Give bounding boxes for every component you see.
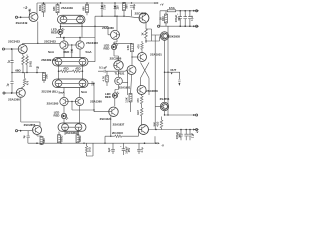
svg-text:2SC3423: 2SC3423 — [8, 40, 20, 44]
svg-text:7.5V: 7.5V — [102, 4, 106, 10]
svg-text:47Ω: 47Ω — [75, 67, 81, 71]
svg-text:2SC3381: 2SC3381 — [65, 131, 77, 135]
svg-text:100Ω: 100Ω — [29, 61, 33, 67]
svg-text:1K: 1K — [141, 32, 145, 35]
svg-text:2SC4793: 2SC4793 — [135, 11, 147, 15]
svg-text:2SC3423: 2SC3423 — [100, 117, 112, 121]
svg-text:RED: RED — [54, 114, 60, 118]
svg-text:R10: R10 — [161, 16, 165, 21]
svg-text:680: 680 — [42, 138, 46, 143]
svg-text:1μ: 1μ — [6, 60, 10, 63]
svg-text:100μ: 100μ — [132, 3, 136, 9]
svg-text:+V: +V — [160, 2, 164, 6]
svg-text:2SA1360: 2SA1360 — [90, 100, 102, 104]
svg-text:2SJ554: 2SJ554 — [160, 97, 170, 101]
svg-text:5mA: 5mA — [48, 50, 54, 54]
svg-text:470: 470 — [26, 80, 30, 85]
svg-text:RED: RED — [104, 47, 110, 51]
svg-text:1.5K: 1.5K — [124, 97, 128, 103]
svg-text:2SA1360: 2SA1360 — [47, 101, 59, 105]
svg-text:33K: 33K — [45, 74, 49, 79]
svg-text:1 μF: 1 μF — [190, 132, 194, 138]
svg-text:2SK389 (BL): 2SK389 (BL) — [41, 58, 58, 62]
svg-text:2SC3423: 2SC3423 — [86, 41, 98, 45]
svg-text:5mA: 5mA — [81, 90, 87, 94]
svg-text:2SA1837: 2SA1837 — [113, 122, 125, 126]
svg-text:1μ: 1μ — [5, 83, 9, 86]
svg-text:47Ω: 47Ω — [63, 67, 69, 71]
svg-text:2SC2856: 2SC2856 — [24, 123, 36, 127]
svg-text:10Ω: 10Ω — [87, 147, 91, 152]
svg-text:RED: RED — [51, 31, 57, 35]
svg-text:680: 680 — [81, 6, 85, 11]
svg-text:680Ω: 680Ω — [60, 136, 64, 142]
svg-text:OUT: OUT — [170, 68, 176, 72]
svg-text:2SC3423: 2SC3423 — [44, 40, 56, 44]
svg-text:5mA: 5mA — [58, 91, 64, 95]
svg-text:560: 560 — [124, 4, 128, 9]
svg-text:0.1 μF: 0.1 μF — [99, 66, 107, 70]
svg-text:TLP521: TLP521 — [115, 72, 125, 76]
svg-text:2SJ109 (BL): 2SJ109 (BL) — [41, 89, 57, 93]
svg-text:-V: -V — [161, 143, 164, 147]
svg-text:IN: IN — [36, 65, 39, 69]
svg-text:1.5K: 1.5K — [126, 45, 130, 51]
svg-text:-V: -V — [196, 130, 199, 134]
svg-text:2SA1349: 2SA1349 — [61, 6, 73, 10]
svg-text:2SK2955: 2SK2955 — [168, 34, 180, 38]
svg-text:4.7μ: 4.7μ — [140, 147, 144, 153]
svg-text:36V: 36V — [177, 133, 181, 138]
svg-text:2SA1931: 2SA1931 — [119, 85, 131, 89]
svg-text:2N 240U: 2N 240U — [112, 131, 123, 135]
svg-text:2SA1360: 2SA1360 — [8, 98, 20, 102]
svg-text:470: 470 — [136, 44, 140, 49]
svg-text:5mA: 5mA — [85, 50, 91, 54]
svg-text:1μF: 1μF — [107, 147, 111, 152]
svg-text:2SA1349: 2SA1349 — [16, 21, 28, 25]
svg-text:2SA1360: 2SA1360 — [102, 26, 114, 30]
svg-text:36V: 36V — [177, 16, 181, 21]
svg-text:25V: 25V — [127, 147, 131, 152]
svg-text:680: 680 — [52, 6, 56, 11]
svg-text:4.7K: 4.7K — [101, 76, 105, 82]
svg-text:680Ω: 680Ω — [78, 136, 82, 142]
svg-text:RED: RED — [105, 95, 111, 99]
svg-text:4Ω3: 4Ω3 — [156, 121, 160, 126]
svg-text:4Ω7: 4Ω7 — [136, 109, 140, 114]
svg-text:68Ω: 68Ω — [15, 68, 21, 72]
svg-text:470: 470 — [136, 98, 140, 103]
svg-text:1μ: 1μ — [22, 135, 26, 138]
svg-text:680Ω: 680Ω — [38, 5, 42, 11]
svg-text:12V: 12V — [91, 81, 95, 86]
svg-text:1 μF: 1 μF — [190, 15, 194, 21]
svg-text:2SC2856: 2SC2856 — [146, 89, 158, 93]
svg-text:0.5A: 0.5A — [169, 6, 175, 10]
svg-text:12V: 12V — [115, 5, 119, 10]
svg-text:RED: RED — [63, 50, 69, 54]
svg-text:2SC2856: 2SC2856 — [110, 56, 122, 60]
svg-text:2SA1931: 2SA1931 — [150, 53, 162, 57]
